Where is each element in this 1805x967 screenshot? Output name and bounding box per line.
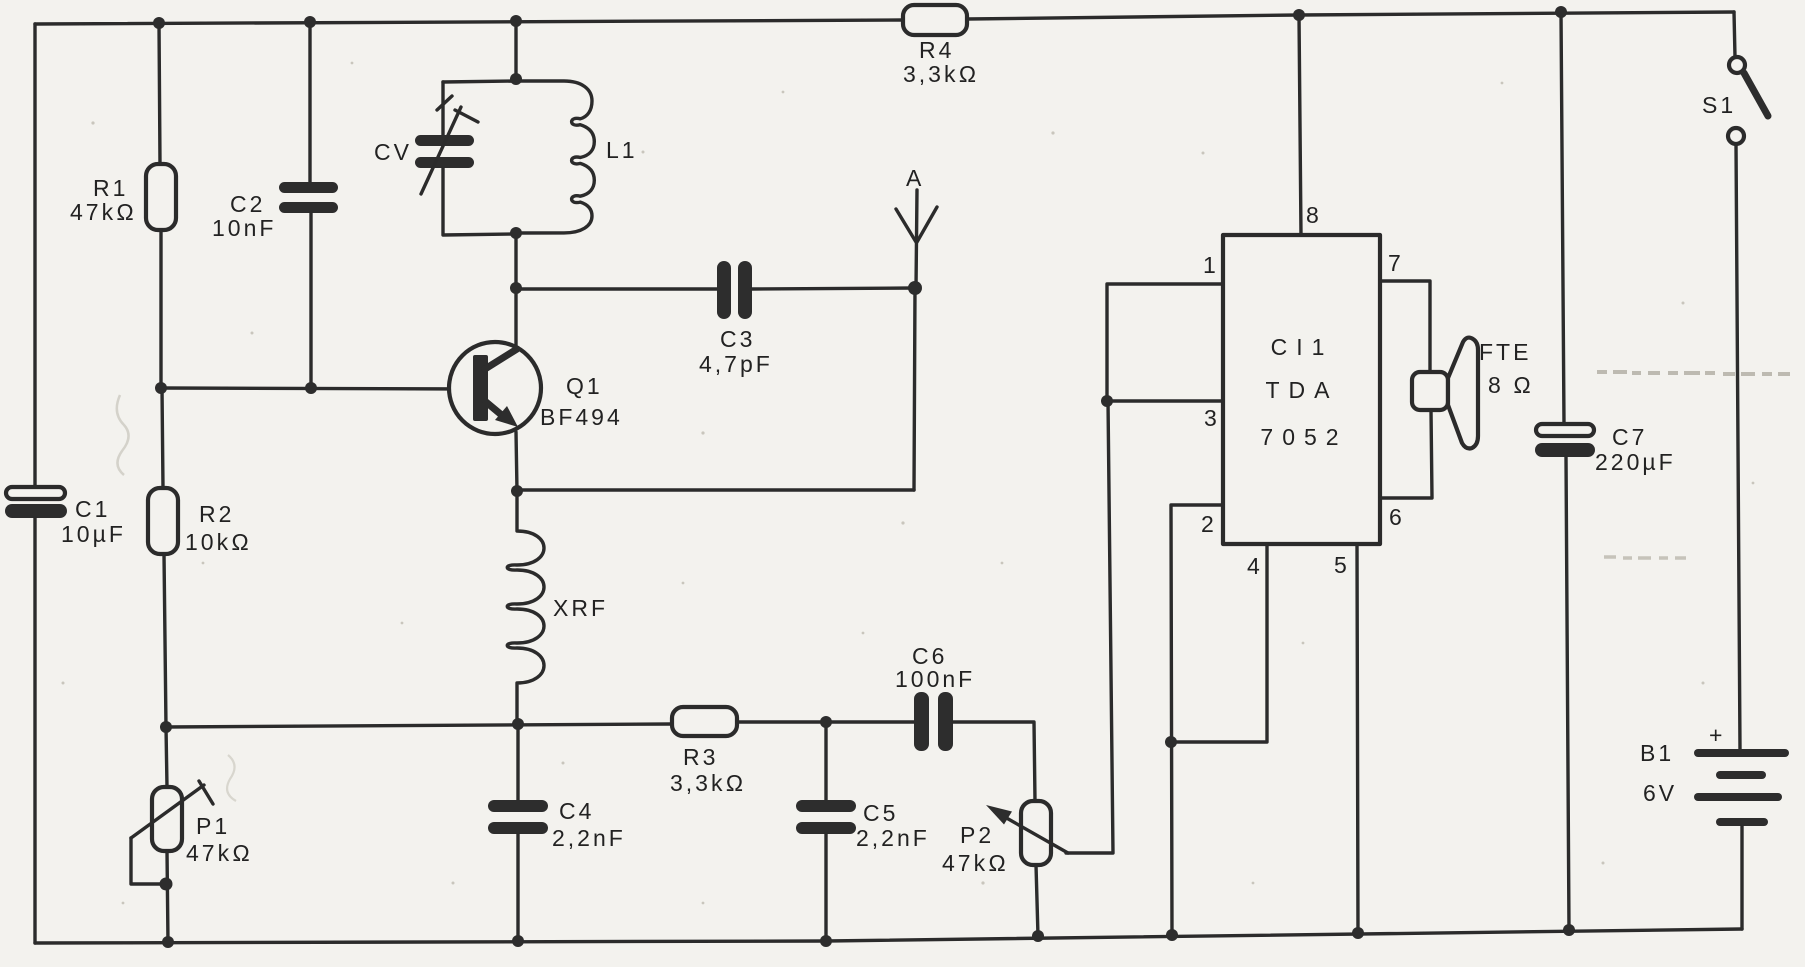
wire R3 right to C5 node [737, 720, 915, 723]
junction AF bus at XRF [512, 718, 524, 730]
svg-text:R1: R1 [93, 175, 128, 201]
junction ground at pin5 [1352, 927, 1364, 939]
wire C4 bottom to ground [516, 834, 519, 941]
wire pin 2 [1171, 505, 1223, 935]
svg-text:R2: R2 [199, 501, 234, 527]
P2 wiper arrow [1003, 816, 1068, 853]
wire antenna node down [914, 288, 915, 490]
speaker FTE [1412, 372, 1448, 410]
junction ground at C7 [1563, 924, 1575, 936]
wire tank left branch lower [443, 168, 516, 235]
svg-text:C3: C3 [720, 326, 755, 352]
Q1 collector lead [485, 349, 517, 369]
svg-text:10nF: 10nF [212, 215, 276, 241]
Q1 emitter lead with arrow [486, 402, 504, 417]
wire battery to ground rail [1740, 826, 1743, 929]
P1 wiper return wire [131, 838, 166, 884]
svg-text:2,2nF: 2,2nF [856, 825, 930, 851]
svg-text:8: 8 [1306, 202, 1322, 228]
svg-text:7052: 7052 [1260, 424, 1347, 450]
wire C7 rail lower [1566, 457, 1569, 930]
svg-text:R3: R3 [683, 744, 718, 770]
svg-text:1: 1 [1203, 252, 1219, 278]
svg-text:TDA: TDA [1266, 377, 1339, 403]
wire C5 top stub [824, 722, 827, 800]
junction pin2 pin4 node [1165, 736, 1177, 748]
svg-text:C5: C5 [863, 800, 898, 826]
svg-text:C7: C7 [1612, 424, 1647, 450]
junction top rail at C7 [1555, 6, 1567, 18]
integrated circuit U1 CI1 TDA7052 [1223, 235, 1380, 544]
svg-text:C2: C2 [230, 191, 265, 217]
svg-text:+: + [1709, 722, 1725, 748]
wire P2 wiper to IC input [1066, 401, 1113, 853]
wire emitter stub [516, 432, 517, 491]
resistor R2 [148, 488, 178, 554]
wire bottom rail [35, 929, 1742, 943]
junction ground at pin2 [1166, 929, 1178, 941]
wire C5 bottom to ground [824, 834, 827, 941]
wire pin 1 [1107, 284, 1223, 401]
svg-text:2,2nF: 2,2nF [552, 825, 626, 851]
capacitor C6 [914, 692, 929, 751]
wire AF bus left [166, 724, 672, 727]
svg-text:P2: P2 [960, 822, 994, 848]
svg-text:5: 5 [1334, 552, 1350, 578]
junction ground at P1 [162, 936, 174, 948]
junction AF bus at C5 [820, 716, 832, 728]
svg-text:R4: R4 [919, 37, 954, 63]
junction emitter node [511, 485, 523, 497]
faint scan band right of speaker [1597, 372, 1790, 374]
svg-text:47kΩ: 47kΩ [70, 199, 137, 225]
capacitor C5 [796, 800, 856, 812]
junction P1 wiper [160, 878, 173, 891]
svg-text:4: 4 [1247, 553, 1263, 579]
wire P1 bottom to ground rail [167, 851, 168, 943]
inductor L1 [516, 81, 594, 233]
capacitor C3 [717, 261, 731, 319]
junction tank bottom [510, 227, 522, 239]
svg-text:47kΩ: 47kΩ [942, 850, 1009, 876]
inductor XRF [507, 491, 544, 724]
capacitor C1 [6, 487, 65, 499]
svg-text:L1: L1 [606, 137, 638, 163]
wire left rail upper [33, 24, 36, 487]
svg-text:B1: B1 [1640, 740, 1674, 766]
wire R1 bottom to base node [159, 230, 162, 388]
wire P1 top stub [166, 727, 167, 787]
junction antenna node [908, 281, 922, 295]
junction ground at C4 [512, 935, 524, 947]
wire base node horizontal [161, 388, 474, 389]
wire collector rail top stub [514, 22, 517, 79]
wire C7 rail upper [1561, 12, 1564, 424]
wire R1 top stub [159, 23, 160, 164]
capacitor CV [415, 135, 474, 146]
svg-text:XRF: XRF [553, 595, 608, 621]
junction base at C2 [305, 382, 317, 394]
wire C4 top stub [516, 724, 519, 801]
svg-text:3: 3 [1204, 405, 1220, 431]
junction top rail at pin8 [1293, 9, 1305, 21]
resistor R4 [903, 5, 967, 35]
wire left rail lower [33, 518, 36, 943]
wire pin 4 [1171, 544, 1267, 742]
switch S1 [1729, 57, 1745, 73]
wire C2 top stub [308, 22, 311, 183]
svg-text:6V: 6V [1643, 780, 1677, 806]
capacitor C4 [488, 800, 548, 812]
wire right rail top [1734, 12, 1735, 57]
svg-text:CI1: CI1 [1271, 334, 1334, 360]
svg-text:3,3kΩ: 3,3kΩ [670, 770, 746, 796]
wire C3 left [516, 287, 718, 290]
resistor R3 [672, 707, 737, 736]
svg-text:C1: C1 [75, 496, 110, 522]
wire top rail left segment [35, 20, 903, 24]
svg-text:220µF: 220µF [1595, 449, 1676, 475]
svg-text:BF494: BF494 [540, 404, 623, 430]
wire pin 6 [1380, 410, 1432, 498]
svg-text:100nF: 100nF [895, 666, 975, 692]
wire pin 7 [1380, 281, 1430, 374]
wire P2 bottom to ground [1036, 865, 1038, 936]
svg-text:8 Ω: 8 Ω [1488, 372, 1534, 398]
svg-text:FTE: FTE [1479, 339, 1531, 365]
potentiometer P1 [152, 787, 182, 851]
capacitor C7 [1536, 424, 1594, 436]
wire C3 right to antenna node [752, 288, 915, 289]
junction AF bus at R2 [160, 721, 172, 733]
svg-text:47kΩ: 47kΩ [186, 840, 253, 866]
battery B1 [1694, 749, 1789, 757]
wire C2 bottom to base wire [309, 213, 312, 388]
junction top rail at R1 [153, 17, 165, 29]
junction top rail at C2 [304, 16, 316, 28]
wire tank left branch upper [441, 82, 444, 136]
svg-text:C4: C4 [559, 798, 594, 824]
svg-text:4,7pF: 4,7pF [699, 351, 773, 377]
transistor Q1 [449, 342, 541, 434]
wire C6 right to P2 top [953, 722, 1035, 801]
capacitor C2 [279, 182, 338, 193]
svg-text:P1: P1 [196, 813, 230, 839]
wire R2 top stub [162, 388, 163, 488]
svg-text:7: 7 [1388, 250, 1404, 276]
wire pin 8 [1299, 15, 1301, 235]
svg-text:Q1: Q1 [566, 373, 603, 399]
wire top rail right segment [967, 12, 1734, 19]
junction collector C3 [510, 282, 522, 294]
wire right rail mid [1736, 144, 1740, 749]
wire pin 5 [1357, 544, 1358, 933]
wire emitter node horizontal [517, 488, 914, 491]
CV trimmer arrow [421, 107, 461, 194]
wire collector rail mid [514, 233, 517, 349]
junction base at R1 [155, 382, 167, 394]
junction tank top [510, 73, 522, 85]
wire tank top [443, 81, 517, 82]
svg-text:A: A [906, 165, 924, 191]
svg-text:10kΩ: 10kΩ [185, 529, 252, 555]
junction IC input node [1101, 395, 1113, 407]
svg-text:S1: S1 [1702, 92, 1736, 118]
svg-text:CV: CV [374, 139, 412, 165]
svg-text:6: 6 [1389, 504, 1405, 530]
wire R2 bottom to AF node [164, 554, 166, 727]
svg-text:10µF: 10µF [61, 521, 126, 547]
potentiometer P2 [1021, 801, 1051, 865]
junction top rail at tank [510, 15, 522, 27]
antenna A [916, 190, 917, 288]
faint smudge below R1 [117, 395, 129, 475]
svg-text:2: 2 [1201, 511, 1217, 537]
junction ground at C5 [820, 935, 832, 947]
junction ground at P2 [1032, 930, 1044, 942]
P1 wiper arrow [131, 785, 204, 838]
resistor R1 [146, 164, 176, 230]
svg-text:3,3kΩ: 3,3kΩ [903, 61, 979, 87]
wire pin 3 [1108, 399, 1223, 402]
